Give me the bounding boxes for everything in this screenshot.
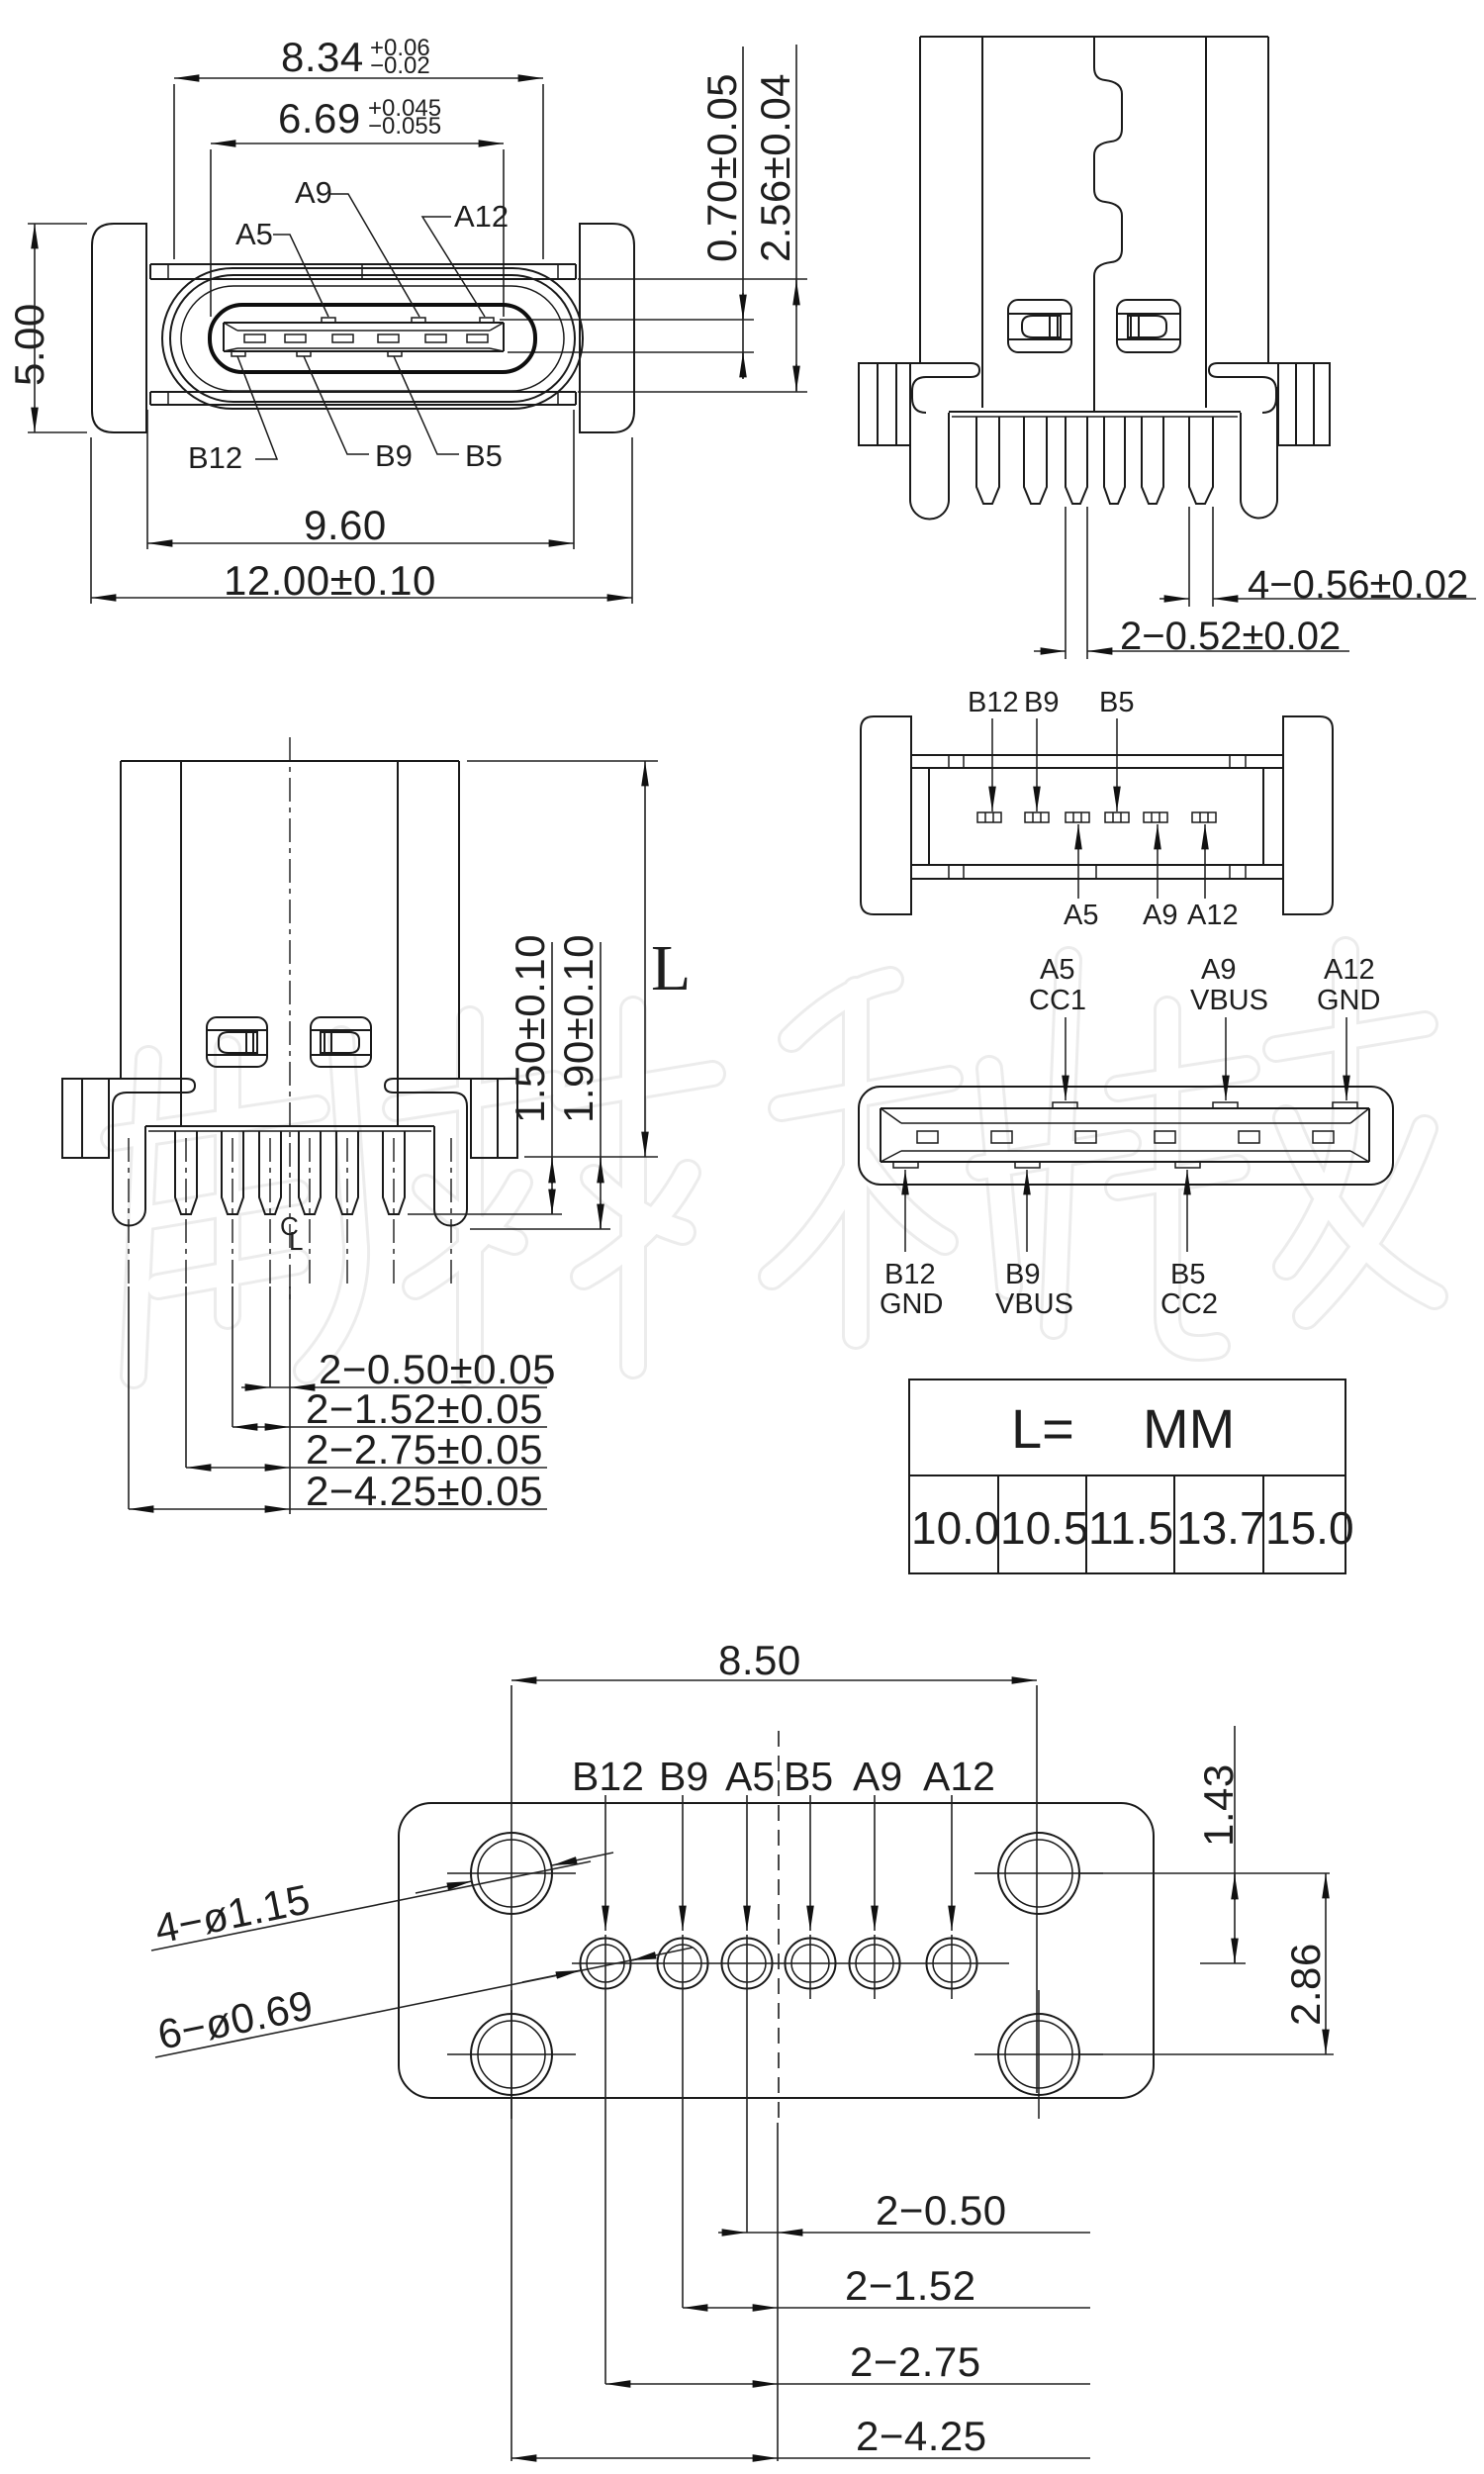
pin hole B12 — [581, 1939, 631, 1989]
shell opening (thick) — [210, 305, 535, 372]
pin bump A5 — [322, 318, 335, 323]
notched parting line — [1094, 37, 1122, 413]
svg-text:5.00: 5.00 — [6, 303, 52, 386]
left inner end — [881, 1108, 901, 1162]
pin bump B12 — [232, 351, 245, 356]
pin hole B5 — [786, 1939, 836, 1989]
pin 1 — [175, 1131, 197, 1214]
svg-text:L=: L= — [1011, 1397, 1074, 1460]
shell oval outline 1 — [162, 268, 583, 409]
svg-text:B9: B9 — [659, 1754, 708, 1799]
contact window 2 — [991, 1131, 1012, 1143]
right solder flange — [1278, 363, 1330, 445]
callout 4-dia1.15 — [150, 1853, 613, 1952]
housing body outline — [121, 761, 459, 1126]
solder pad A9 — [1144, 812, 1167, 822]
tongue — [224, 323, 504, 351]
label B5 + leader — [784, 1754, 833, 1999]
mount hole bottom-left — [447, 1990, 576, 2119]
svg-text:4−0.56±0.02: 4−0.56±0.02 — [1248, 563, 1468, 607]
svg-text:A5: A5 — [1064, 900, 1098, 931]
svg-text:2−4.25±0.05: 2−4.25±0.05 — [306, 1468, 543, 1514]
svg-text:0.70±0.05: 0.70±0.05 — [698, 73, 745, 262]
label A5 + leader — [235, 217, 328, 317]
right shoulder hook — [1209, 363, 1330, 413]
svg-text:A9: A9 — [853, 1754, 902, 1799]
dim 2-1.52±0.05 — [232, 1286, 547, 1432]
svg-text:B9: B9 — [1024, 687, 1059, 718]
svg-text:A5: A5 — [1040, 954, 1074, 986]
contact window 4 — [1155, 1131, 1175, 1143]
svg-text:MM: MM — [1143, 1397, 1235, 1460]
solder pad B5 — [1105, 812, 1129, 822]
bottom pad B9 — [1015, 1162, 1040, 1168]
dim 1.43 — [1079, 1726, 1330, 1963]
dim 2-2.75 — [605, 2338, 1090, 2385]
svg-text:B12: B12 — [572, 1754, 644, 1799]
dim 0.70±0.05 (tongue thickness) — [500, 47, 754, 379]
dim 1.90±0.10 (shield leg protrusion) — [470, 934, 610, 1229]
svg-text:15.0: 15.0 — [1265, 1502, 1354, 1554]
vertical centerline — [778, 1731, 780, 2123]
right end cap — [1283, 716, 1333, 914]
top pad A5 — [1053, 1102, 1077, 1108]
contact window 5 — [1239, 1131, 1259, 1143]
pin centerlines — [129, 1138, 451, 1286]
label A9 + leader — [295, 175, 419, 317]
label A12 GND + arrow — [1317, 954, 1380, 1100]
shield comb body — [910, 387, 1277, 520]
dim 8.50 (mount hole spacing) — [511, 1637, 1037, 2461]
dim 8.34 +0.06/-0.02 (shell width) — [174, 34, 543, 259]
label B5 + leader — [394, 356, 503, 473]
svg-text:2−2.75: 2−2.75 — [850, 2338, 981, 2385]
label B12 GND + arrow — [880, 1170, 943, 1320]
shell outline — [859, 1087, 1393, 1185]
pin 6 — [383, 1131, 405, 1214]
svg-text:VBUS: VBUS — [1190, 985, 1268, 1016]
svg-text:L: L — [651, 932, 691, 1004]
svg-text:2−1.52: 2−1.52 — [845, 2262, 976, 2309]
latch clip left — [207, 1017, 267, 1067]
dim 2-4.25±0.05 — [129, 1286, 547, 1514]
svg-text:−0.02: −0.02 — [370, 52, 430, 79]
shell oval outline 3 — [181, 286, 564, 391]
svg-text:B5: B5 — [1099, 687, 1134, 718]
latch clip left — [1008, 300, 1071, 352]
svg-text:A12: A12 — [1324, 954, 1375, 986]
svg-text:A5: A5 — [235, 217, 273, 251]
pin 5 — [336, 1131, 358, 1214]
svg-text:CC1: CC1 — [1029, 985, 1086, 1016]
bottom pad B12 — [893, 1162, 918, 1168]
dim 6.69 +0.045/-0.055 (cavity width) — [211, 95, 504, 317]
left solder flange — [62, 1079, 109, 1158]
left shoulder hook — [62, 1079, 195, 1112]
dim 2.86 — [1079, 1873, 1334, 2054]
svg-text:8.34: 8.34 — [281, 34, 364, 80]
top rail — [150, 264, 576, 279]
dim 1.50±0.10 (pin protrusion) — [408, 934, 562, 1214]
housing body outline — [920, 37, 1268, 408]
pin 1 — [976, 417, 999, 504]
label B12 + leader — [572, 1754, 644, 2384]
svg-text:B9: B9 — [375, 438, 413, 473]
svg-text:10.0: 10.0 — [911, 1502, 1000, 1554]
pin hole A12 — [927, 1939, 977, 1989]
contact window 6 — [1313, 1131, 1334, 1143]
svg-text:GND: GND — [880, 1288, 943, 1320]
svg-text:12.00±0.10: 12.00±0.10 — [224, 557, 436, 604]
svg-text:9.60: 9.60 — [304, 502, 387, 548]
svg-text:2−2.75±0.05: 2−2.75±0.05 — [306, 1426, 543, 1473]
solder pad B9 — [1025, 812, 1049, 822]
svg-text:A5: A5 — [725, 1754, 775, 1799]
cavity band — [901, 1122, 1350, 1124]
pin hole B9 — [658, 1939, 708, 1989]
dim 4-0.56±0.02 (pin width) — [1159, 507, 1476, 607]
pin bump A9 — [412, 318, 425, 323]
label A12 + arrow — [1187, 824, 1239, 931]
svg-text:B12: B12 — [884, 1259, 936, 1290]
vertical centerline — [289, 737, 291, 1301]
svg-text:−0.055: −0.055 — [368, 113, 441, 140]
label B12 + arrow — [968, 687, 1019, 811]
pin hole A5 — [722, 1939, 773, 1989]
label B9 VBUS + arrow — [995, 1170, 1073, 1320]
solder pad B12 — [977, 812, 1001, 822]
label A5 CC1 + arrow — [1029, 954, 1086, 1100]
svg-text:1.90±0.10: 1.90±0.10 — [555, 934, 602, 1123]
tongue contact pads (6) — [244, 334, 488, 342]
svg-text:B12: B12 — [968, 687, 1019, 718]
left shoulder hook — [859, 363, 979, 413]
pin 2 — [1024, 417, 1047, 504]
dim 2-4.25 — [511, 2413, 1090, 2459]
label A9 + arrow — [1143, 824, 1177, 931]
svg-text:GND: GND — [1317, 985, 1380, 1016]
svg-text:11.5: 11.5 — [1088, 1502, 1173, 1554]
svg-text:2−0.50: 2−0.50 — [876, 2187, 1007, 2234]
svg-text:A12: A12 — [923, 1754, 995, 1799]
latch clip right — [311, 1017, 371, 1067]
mount hole bottom-right — [974, 1990, 1103, 2119]
svg-text:13.7: 13.7 — [1176, 1502, 1265, 1554]
label A12 + leader — [923, 1754, 995, 1999]
contact window 1 — [917, 1131, 938, 1143]
svg-text:A12: A12 — [454, 199, 509, 234]
pin 4 — [1104, 417, 1125, 504]
svg-text:A9: A9 — [1143, 900, 1177, 931]
centerline mark CL — [280, 1211, 303, 1256]
label A12 + leader — [422, 199, 509, 317]
svg-text:B12: B12 — [188, 440, 242, 475]
bottom rail — [150, 392, 576, 405]
svg-text:6.69: 6.69 — [278, 95, 361, 142]
latch clip right — [1117, 300, 1180, 352]
svg-text:VBUS: VBUS — [995, 1288, 1073, 1320]
shell oval outline 2 — [170, 275, 575, 402]
dim 12.00±0.10 (overall width) — [91, 437, 632, 604]
right shoulder hook — [385, 1079, 517, 1112]
svg-text:10.5: 10.5 — [1000, 1502, 1089, 1554]
label B12 + leader — [188, 356, 277, 475]
dim 2-0.50 — [718, 2187, 1090, 2234]
left mounting flange — [92, 224, 146, 432]
label A5 + leader — [725, 1754, 775, 2233]
inner top edge — [881, 1107, 1369, 1109]
dim 2-2.75±0.05 — [186, 1286, 547, 1473]
solder pad A12 — [1192, 812, 1216, 822]
svg-text:1.50±0.10: 1.50±0.10 — [507, 934, 553, 1123]
pin bump B5 — [388, 351, 402, 356]
svg-text:A9: A9 — [1201, 954, 1236, 986]
dim 9.60 (rail width) — [147, 410, 574, 549]
svg-text:2.56±0.04: 2.56±0.04 — [752, 73, 798, 262]
bottom rail — [911, 865, 1283, 879]
label A9 VBUS + arrow — [1190, 954, 1268, 1100]
pin bump B9 — [297, 351, 311, 356]
label B5 + arrow — [1099, 687, 1134, 811]
svg-text:2−1.52±0.05: 2−1.52±0.05 — [306, 1385, 543, 1432]
pin 4 — [299, 1131, 321, 1214]
svg-text:A9: A9 — [295, 175, 332, 210]
contact window 3 — [1075, 1131, 1096, 1143]
svg-text:L: L — [289, 1226, 303, 1256]
label A5 + arrow — [1064, 824, 1098, 931]
inner bottom edge — [881, 1161, 1369, 1163]
dim 2.56±0.04 (shell opening height) — [578, 45, 807, 392]
mount hole top-left — [447, 1833, 576, 1914]
svg-text:CC2: CC2 — [1160, 1288, 1218, 1320]
label A9 + leader — [853, 1754, 902, 1999]
top rail — [911, 755, 1283, 768]
pin 5 — [1142, 417, 1163, 504]
top pad A12 — [1333, 1102, 1357, 1108]
svg-text:B5: B5 — [784, 1754, 833, 1799]
pin 3 — [259, 1131, 281, 1214]
dim 5.00 (flange height) — [6, 224, 87, 432]
pin holes row centerline — [572, 1962, 1009, 1964]
body side edges — [928, 768, 930, 865]
svg-text:8.50: 8.50 — [718, 1637, 801, 1683]
bottom pad B5 — [1175, 1162, 1200, 1168]
svg-text:B5: B5 — [465, 438, 503, 473]
callout 6-dia0.69 — [153, 1948, 693, 2058]
pin 2 — [222, 1131, 243, 1214]
right mounting flange — [580, 224, 634, 432]
dim 2-0.52±0.02 (pin width) — [1034, 507, 1349, 659]
svg-text:B9: B9 — [1005, 1259, 1040, 1290]
pin 6 — [1189, 417, 1213, 504]
svg-text:2.86: 2.86 — [1282, 1943, 1329, 2026]
label B9 + leader — [659, 1754, 708, 2308]
mount hole top-right — [974, 1833, 1103, 1914]
dim L (overall height) — [467, 761, 691, 1157]
label B9 + arrow — [1024, 687, 1059, 811]
right inner end — [1350, 1108, 1369, 1162]
left end cap — [861, 716, 911, 914]
shield comb body — [113, 1106, 467, 1226]
dim 2-0.50±0.05 — [241, 1286, 556, 1514]
svg-text:2−4.25: 2−4.25 — [856, 2413, 987, 2459]
watermark — [114, 950, 1435, 1376]
pcb plate outline — [399, 1803, 1154, 2098]
right solder flange — [471, 1079, 517, 1158]
pin bump A12 — [480, 318, 494, 323]
label B5 CC2 + arrow — [1160, 1170, 1218, 1320]
top pad A9 — [1213, 1102, 1238, 1108]
left solder flange — [859, 363, 910, 445]
solder pad A5 — [1066, 812, 1089, 822]
label B9 + leader — [304, 356, 413, 473]
svg-text:B5: B5 — [1170, 1259, 1205, 1290]
svg-text:A12: A12 — [1187, 900, 1239, 931]
dim 2-1.52 — [683, 2262, 1090, 2309]
pin 3 — [1066, 417, 1087, 504]
pin hole A9 — [850, 1939, 900, 1989]
